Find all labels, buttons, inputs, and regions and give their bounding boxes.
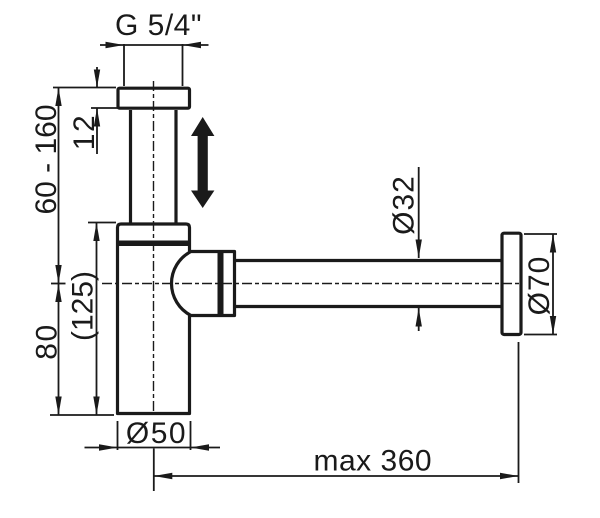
dimension G 5/4 left extension [123,44,125,86]
dimension 80 up arrow [55,284,61,303]
dimension G 5/4 right arrow [183,42,202,48]
dimension 70 line [552,234,554,335]
dimension 125 top extension [88,222,116,224]
dimension 80 line [58,284,60,416]
dimension 70 up arrow [550,234,556,253]
horizontal outlet pipe bottom wall [234,305,503,308]
svg-text:Ø70: Ø70 [523,256,556,316]
svg-text:max 360: max 360 [314,445,433,478]
wall flange rosette [502,233,521,334]
svg-text:80: 80 [31,323,64,359]
dimension 32 up arrow [416,308,422,327]
dimension 125 up arrow [93,223,99,242]
junction tick [51,283,66,285]
dimension 70 bottom extension [524,334,557,336]
dimension max 360 right arrow [500,473,519,479]
dimension 12 up arrow [94,108,100,127]
horizontal outlet pipe top wall [234,259,503,262]
dimension 60-160 down arrow [55,265,61,284]
svg-text:(125): (125) [66,271,99,341]
dimension 12 upper leader [96,67,98,88]
trap cup body [118,224,190,414]
dimension G 5/4 line [100,44,209,46]
adjustment double arrow [191,117,214,208]
dimension 12 lower leader [96,108,98,154]
dimension 50 right extension [190,421,192,450]
svg-text:Ø32: Ø32 [388,175,421,235]
horizontal centerline [102,283,521,285]
vertical centerline [153,81,155,413]
outlet elbow sleeve [171,252,234,316]
vertical inlet pipe right wall [174,110,177,224]
dimension 125 line [96,223,98,416]
dimension 70 down arrow [550,316,556,335]
dimension G 5/4 left arrow [106,42,125,48]
dimension 32 down arrow [416,240,422,259]
dimension 50 right arrow [191,444,210,450]
dimension 32 upper leader [418,167,420,258]
dimension max 360 line [154,475,519,477]
dimension 80 down arrow [55,397,61,416]
dimension 12 down arrow [94,70,100,88]
top flange nut [118,88,190,108]
dimension 32 lower leader [418,308,420,331]
svg-text:Ø50: Ø50 [126,417,187,450]
svg-text:G 5/4": G 5/4" [115,9,202,42]
dimension 60-160 up arrow [55,88,61,107]
dimension 12 bottom extension [91,107,119,109]
dimension max 360 left arrow [154,473,173,479]
dimension 12 top extension [53,87,116,89]
dimension 50 left arrow [99,444,118,450]
dimension 50 line [85,447,221,449]
svg-text:60 - 160: 60 - 160 [30,104,63,214]
dimension max 360 left extension [153,449,155,492]
dimension 125 down arrow [93,397,99,416]
dimension 70 top extension [524,233,557,235]
vertical inlet pipe left wall [129,110,132,224]
dimension G 5/4 right extension [182,44,184,86]
dimension 60-160 line [58,88,60,284]
cup collar joint band [117,241,191,247]
dimension 50 left extension [117,421,119,450]
bottom shared extension line [50,414,114,416]
svg-text:12: 12 [68,114,101,150]
elbow compression nut bar [218,250,224,317]
dimension max 360 right extension [518,342,520,483]
